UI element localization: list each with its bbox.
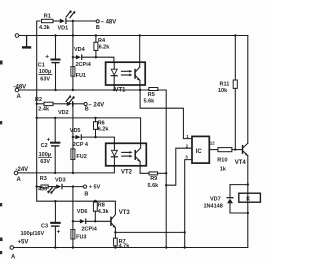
wire pin1 path [140, 90, 192, 139]
label R10 value [217, 157, 227, 172]
transistor VT2 inside opto2 [135, 143, 141, 166]
svg-text:C3: C3 [41, 223, 48, 229]
transistor VT4 [242, 143, 248, 155]
node R11 top on ground line [234, 34, 236, 36]
wire right vertical to VT4 collector [247, 36, 249, 144]
terminal A +5V [10, 246, 14, 250]
label 2CP14 section1 [76, 62, 92, 68]
wire ground top line [19, 35, 248, 37]
svg-text:– 48V: – 48V [101, 20, 117, 26]
ground chassis symbol [22, 36, 31, 49]
fuse FU3 [71, 229, 75, 239]
wire VD4 line [73, 56, 76, 58]
label VD1 [58, 26, 69, 32]
node R11 bottom on base line [234, 148, 236, 150]
svg-text:VD1: VD1 [58, 26, 69, 32]
node VD1 junction [72, 20, 74, 22]
label C2 value [39, 143, 51, 165]
resistor R1 [42, 19, 54, 22]
node R2 tap on bus [36, 103, 38, 105]
label C3 plus [57, 228, 61, 235]
node relay bottom [247, 212, 249, 214]
resistor R7 [114, 238, 118, 246]
svg-text:B: B [84, 191, 88, 197]
label R7 value [119, 239, 131, 250]
wire C2 fraction bar [39, 156, 52, 158]
label +5V A [11, 239, 28, 260]
label 2CP14 section3 [82, 227, 98, 233]
resistor R6 [94, 122, 98, 130]
label VD2 [58, 110, 69, 116]
wire opto1 emitter exit [139, 85, 141, 90]
LED arrows VD2 [66, 95, 75, 102]
capacitor C1 [50, 36, 60, 91]
scan smudge left edge 4 [0, 238, 3, 242]
svg-text:2.4k: 2.4k [38, 107, 50, 113]
svg-text:R9: R9 [150, 176, 157, 182]
transistor VT3 [110, 215, 115, 239]
wire VD6 to VT3 base [86, 220, 110, 222]
svg-text:K: K [246, 197, 250, 203]
fuse FU1 [71, 67, 75, 77]
label R8 value [98, 203, 110, 215]
svg-text:VD2: VD2 [58, 110, 69, 116]
diode VD2 [67, 102, 73, 106]
wire +5V rail [14, 247, 248, 249]
fuse FU2 [71, 149, 75, 160]
svg-text:100µ/16V: 100µ/16V [21, 231, 45, 237]
LED arrows VD3 [47, 187, 55, 194]
wire R2 line [37, 103, 44, 105]
scan smudge left edge 5 [0, 251, 2, 254]
svg-text:+: + [45, 53, 49, 60]
svg-text:R8: R8 [98, 203, 105, 209]
label R11 value [218, 81, 229, 94]
svg-text:A: A [11, 255, 16, 261]
wire ground bus left [37, 21, 116, 214]
wire R11 column [234, 36, 236, 81]
wire R8 top [94, 200, 96, 203]
node pin2 on long vertical [165, 184, 167, 186]
node VD6 line tap [72, 220, 74, 222]
resistor R9 [149, 172, 158, 175]
svg-text:R2: R2 [35, 97, 42, 103]
wire VD2 to terminal B2 [73, 103, 84, 105]
wire VD4 to opto1 LED [82, 57, 114, 62]
diode VD6 [80, 219, 86, 223]
svg-text:VT1: VT1 [115, 87, 127, 93]
label VT2 [121, 170, 133, 176]
node R8 top [94, 200, 97, 203]
svg-text:FU1: FU1 [76, 73, 86, 79]
wire R6 top [95, 118, 97, 122]
node R6 bottom [94, 136, 96, 138]
capacitor C2 [50, 118, 60, 173]
wire fuse column section1 [72, 21, 74, 90]
svg-text:R10: R10 [217, 157, 227, 163]
label K [246, 197, 250, 203]
wire relay bottom line [230, 212, 248, 214]
label -48V B [96, 20, 116, 31]
terminal A -48V [15, 88, 19, 92]
svg-text:VD3: VD3 [55, 177, 66, 183]
wire R4 top [95, 36, 97, 43]
wire pin2 path [166, 148, 192, 185]
svg-text:R1: R1 [44, 13, 51, 19]
label 2CP14 section2 [73, 142, 89, 148]
resistor R2 [44, 102, 53, 105]
svg-text:C2: C2 [41, 143, 48, 149]
svg-text:– 24V: – 24V [88, 102, 104, 108]
node R6 top [94, 117, 96, 119]
svg-text:A: A [17, 94, 22, 100]
label -48V A [14, 84, 27, 100]
wire fuse column section2 [72, 104, 74, 173]
node ground tap [0, 0, 1, 1]
op-amp opto coupler U1 box [106, 62, 146, 85]
label C3 value [21, 223, 49, 236]
wire R3 line [37, 186, 41, 188]
wire R5 to corner down long vertical [158, 90, 166, 248]
diode VD5 [76, 135, 82, 139]
svg-text:-48V: -48V [14, 84, 27, 90]
svg-text:VD6: VD6 [77, 209, 88, 215]
label FU2 [76, 154, 86, 160]
svg-text:R6: R6 [98, 120, 105, 126]
diode VD1 [60, 19, 66, 24]
node FU1 bottom on A line [72, 89, 74, 91]
svg-text:63V: 63V [40, 77, 50, 83]
node R3 tap on bus [36, 185, 38, 187]
svg-text:R3: R3 [40, 176, 47, 182]
scan smudge left edge 3 [0, 203, 2, 206]
svg-text:430: 430 [38, 186, 47, 192]
label VD3 [55, 177, 66, 183]
wire R9 to long vertical [158, 172, 167, 174]
wire R8 bottom [94, 211, 96, 221]
label R3 value [38, 176, 47, 192]
wire B1 line R1 to VD1 [53, 20, 60, 22]
resistor R4 [94, 42, 98, 50]
wire IC output to R10 [209, 149, 218, 151]
svg-text:1N4148: 1N4148 [204, 204, 223, 210]
node opto1 emitter [139, 89, 141, 91]
relay K box [239, 193, 261, 202]
node long vertical on rail [165, 246, 167, 248]
LED inside opto1 [111, 62, 117, 85]
svg-text:VD4: VD4 [74, 47, 86, 53]
terminal B +5V [83, 185, 86, 188]
pin 1 label [186, 134, 189, 139]
node C3 top [54, 200, 56, 202]
wire C1 fraction bar [39, 74, 52, 76]
label VD4 [74, 47, 86, 53]
diode VD3 [56, 184, 62, 188]
label C1 plus [45, 53, 49, 60]
light arrows opto1 [122, 70, 133, 77]
wire R2 to VD2 [53, 103, 67, 105]
terminal B -48V [96, 20, 99, 23]
label C2 plus [47, 136, 51, 143]
svg-text:12: 12 [210, 141, 216, 146]
label C1 value [38, 63, 51, 83]
svg-text:5.6k: 5.6k [144, 99, 156, 105]
label VD5 [70, 128, 81, 134]
diode VD7 [227, 185, 233, 213]
pin 3 label [185, 155, 188, 160]
svg-text:2CPi4: 2CPi4 [76, 62, 92, 68]
label R1 value [39, 13, 51, 31]
label FU3 [76, 235, 86, 241]
svg-text:IC: IC [196, 149, 203, 155]
node R7 on rail [114, 246, 116, 248]
wire VT4 emitter down to relay [247, 156, 249, 248]
node VD3 junction [72, 185, 74, 187]
node C2 top [54, 117, 56, 119]
svg-text:2CP 4: 2CP 4 [73, 142, 89, 148]
diode VD4 [76, 55, 82, 59]
resistor R11 [233, 80, 237, 88]
svg-text:R4: R4 [98, 38, 106, 44]
wire R11 bottom [234, 88, 236, 149]
svg-text:C1: C1 [38, 63, 45, 69]
label IC [196, 149, 203, 155]
label +5V B [84, 185, 100, 198]
wire VT3 emitter branch to pin3 line [115, 231, 184, 233]
svg-text:4.7k: 4.7k [119, 243, 131, 249]
wire -24V A line [18, 166, 115, 173]
node C3 bottom [54, 246, 56, 248]
node pin3 line on rail [184, 246, 186, 248]
pin 2 label [186, 144, 189, 149]
wire relay top line [230, 184, 248, 186]
wire VD3 to terminal B3 [63, 186, 84, 188]
label -24V B [85, 102, 104, 112]
light arrows opto2 [122, 151, 133, 158]
label R9 value [148, 176, 160, 189]
svg-text:4.3k: 4.3k [39, 25, 51, 31]
pin 12 label [210, 141, 216, 146]
label FU1 [76, 73, 86, 79]
node C2 bottom [54, 172, 56, 174]
node VT3 emitter junction [114, 231, 116, 233]
label R4 value [98, 38, 110, 50]
label VT1 [115, 87, 127, 93]
wire R6 bottom [95, 129, 97, 137]
label R5 value [144, 92, 156, 104]
node pin3 line crossing emitter branch [184, 231, 186, 233]
wire VD5 line [73, 136, 76, 138]
node VD4 line tap [72, 56, 74, 58]
wire R7 bottom [114, 246, 116, 248]
node relay top [247, 183, 249, 185]
svg-text:4.3k: 4.3k [98, 209, 110, 215]
svg-text:+ 5V: + 5V [89, 185, 101, 191]
label R2 value [35, 97, 50, 112]
svg-text:63V: 63V [40, 159, 50, 165]
terminal ground input [15, 34, 19, 38]
label VT3 [119, 210, 131, 216]
scan smudge left edge 2 [0, 121, 2, 124]
wire opto1 collector riser [139, 36, 141, 63]
node FU2 bottom on A2 line [72, 172, 74, 174]
svg-text:-24V: -24V [16, 167, 29, 173]
svg-text:2CPi4: 2CPi4 [82, 227, 98, 233]
svg-text:VT4: VT4 [235, 160, 247, 166]
svg-text:VD5: VD5 [70, 128, 81, 134]
svg-text:VT3: VT3 [119, 210, 131, 216]
svg-text:A: A [17, 177, 22, 183]
svg-text:R11: R11 [220, 81, 230, 87]
terminal B -24V [84, 102, 87, 105]
node R8 bottom [94, 220, 96, 222]
svg-text:+5V: +5V [18, 239, 29, 245]
wire fuse column section3 [72, 187, 74, 248]
svg-text:B: B [85, 107, 89, 113]
label VD6 [77, 209, 88, 215]
wire -48V A line [19, 89, 149, 91]
svg-text:10k: 10k [218, 88, 228, 94]
wire R4 bottom [95, 51, 97, 58]
scan smudge left edge 1 [0, 61, 3, 65]
node FU3 on rail [72, 246, 74, 248]
wire opto1 LED cathode exit [113, 85, 115, 90]
svg-text:+: + [57, 228, 61, 235]
label VD7 value [204, 196, 223, 209]
label VT4 [235, 160, 247, 166]
wire opto2 emitter to R9 [140, 166, 149, 174]
wire pin3 path [185, 160, 192, 248]
node opto1 collector on ground line [139, 34, 141, 36]
svg-text:1k: 1k [220, 167, 227, 173]
op-amp IC U3 box [192, 136, 209, 163]
node R4 top [95, 34, 97, 36]
svg-text:R5: R5 [148, 92, 155, 98]
capacitor C3 [50, 201, 61, 247]
node ground line crossing [72, 34, 74, 36]
node VD5 line tap [72, 136, 74, 138]
node VD2 junction [72, 103, 74, 105]
wire VD6 line [73, 220, 80, 222]
svg-text:B: B [96, 25, 100, 31]
svg-text:VD7: VD7 [210, 196, 221, 202]
wire R3 to VD3 [48, 186, 56, 188]
wire VD1 to terminal B1 [67, 20, 97, 22]
LED arrows VD1 [66, 10, 76, 17]
op-amp opto coupler U2 box [106, 143, 147, 166]
terminal A -24V [14, 171, 18, 175]
resistor R5 [149, 88, 158, 91]
node LED1 cathode [113, 89, 115, 91]
svg-text:6.2k: 6.2k [98, 127, 110, 133]
wire R10 to VT4 base [232, 149, 242, 151]
svg-text:FU3: FU3 [76, 235, 86, 241]
svg-text:VT2: VT2 [121, 170, 133, 176]
svg-text:5.6k: 5.6k [148, 183, 160, 189]
label -24V A [16, 167, 29, 183]
node bus tap y118 [36, 117, 38, 119]
resistor R8 [93, 202, 97, 211]
LED inside opto2 [111, 143, 117, 166]
label R6 value [98, 120, 110, 132]
node R4 bottom [95, 56, 97, 58]
svg-text:FU2: FU2 [76, 154, 86, 160]
svg-text:6.2k: 6.2k [99, 44, 111, 50]
wire VD5 to opto2 LED [82, 137, 114, 143]
resistor R10 [218, 148, 232, 152]
node C1 bottom [54, 89, 56, 91]
wire ground feed line section2 [37, 118, 141, 143]
transistor VT1 inside opto1 [134, 62, 140, 85]
resistor R3 [41, 185, 48, 188]
node R9 on long vertical [165, 172, 167, 174]
node C1 top [54, 34, 56, 36]
